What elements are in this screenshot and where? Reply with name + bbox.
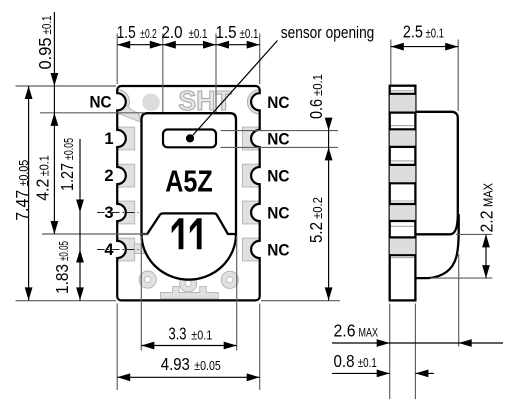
svg-text:4.2: 4.2: [32, 179, 52, 201]
svg-text:NC: NC: [267, 93, 289, 112]
svg-text:MAX: MAX: [359, 328, 379, 340]
svg-text:±0.2: ±0.2: [311, 197, 325, 219]
svg-text:±0.05: ±0.05: [17, 160, 31, 187]
svg-text:2.6: 2.6: [334, 321, 356, 341]
svg-text:±0.1: ±0.1: [191, 329, 212, 343]
svg-text:±0.05: ±0.05: [62, 138, 76, 160]
svg-text:2.5: 2.5: [403, 22, 423, 42]
svg-text:0.6: 0.6: [306, 99, 326, 119]
svg-text:sensor opening: sensor opening: [281, 24, 375, 42]
svg-text:NC: NC: [267, 167, 289, 186]
svg-text:2.0: 2.0: [162, 22, 183, 42]
svg-text:±0.1: ±0.1: [40, 15, 54, 34]
svg-text:±0.1: ±0.1: [240, 27, 259, 41]
svg-text:±0.05: ±0.05: [194, 359, 221, 373]
svg-text:2.2: 2.2: [477, 211, 497, 233]
svg-text:1.83: 1.83: [52, 264, 72, 294]
svg-text:1.5: 1.5: [117, 22, 136, 42]
svg-text:NC: NC: [267, 130, 289, 149]
svg-text:4.93: 4.93: [161, 354, 190, 374]
svg-text:1: 1: [104, 130, 113, 148]
svg-text:±0.1: ±0.1: [311, 74, 325, 96]
svg-text:3: 3: [104, 204, 113, 222]
svg-text:4: 4: [104, 241, 114, 259]
svg-text:NC: NC: [267, 241, 289, 260]
svg-text:±0.1: ±0.1: [189, 27, 208, 41]
svg-text:±0.1: ±0.1: [37, 155, 51, 176]
svg-text:1.5: 1.5: [216, 22, 237, 42]
svg-text:±0.05: ±0.05: [57, 241, 71, 261]
svg-text:A5Z: A5Z: [165, 165, 213, 199]
svg-text:MAX: MAX: [482, 182, 496, 207]
svg-text:±0.2: ±0.2: [140, 27, 157, 41]
svg-text:1.27: 1.27: [57, 163, 77, 191]
svg-text:NC: NC: [90, 93, 112, 111]
svg-text:5.2: 5.2: [306, 222, 326, 243]
svg-text:2: 2: [104, 167, 113, 185]
svg-text:±0.1: ±0.1: [426, 27, 445, 41]
svg-text:NC: NC: [267, 204, 289, 223]
svg-text:0.8: 0.8: [334, 351, 355, 371]
svg-text:0.95: 0.95: [35, 38, 55, 70]
svg-text:±0.1: ±0.1: [358, 356, 377, 370]
svg-text:3.3: 3.3: [169, 324, 187, 344]
svg-text:7.47: 7.47: [12, 190, 32, 221]
